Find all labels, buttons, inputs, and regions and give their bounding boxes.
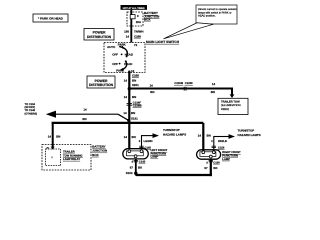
wire label 14 BN	[48, 134, 61, 138]
wire label 14 BN	[150, 83, 155, 93]
node label TO C194 (SPORT) TO C148 (OTHERS)	[25, 103, 38, 116]
svg-text:C156: C156	[218, 146, 225, 149]
svg-text:MAIN LIGHT SWITCH: MAIN LIGHT SWITCH	[146, 40, 180, 44]
svg-text:TOW RUNNING: TOW RUNNING	[63, 154, 83, 157]
wire: hot bar to fuse	[130, 10, 132, 15]
wire: drop to trailer tow relay	[51, 123, 55, 150]
svg-text:14: 14	[123, 111, 127, 115]
svg-text:13: 13	[131, 69, 135, 73]
svg-text:C156: C156	[213, 162, 220, 165]
bus wire 1: S201 to trailer tow illumination feed	[129, 88, 233, 90]
main light switch SW1 (dashed box)	[104, 42, 145, 73]
wire label 14 BN	[82, 108, 87, 121]
wire: switch output down to left lamp	[128, 71, 130, 150]
wire label 57 BK	[130, 166, 143, 170]
svg-text:BOX: BOX	[92, 153, 98, 157]
svg-text:BN: BN	[211, 90, 215, 94]
connector C145 pin 3	[139, 140, 153, 149]
in-line connector C134F / C134M	[127, 101, 143, 107]
battery junction box label	[144, 11, 159, 21]
wire label 195 TN/WH	[124, 30, 143, 34]
svg-text:BN: BN	[132, 135, 136, 139]
wire: right lamp to ground bus (corner)	[210, 159, 212, 176]
svg-text:HAZARD LAMPS: HAZARD LAMPS	[238, 133, 261, 137]
svg-text:OFF: OFF	[112, 53, 118, 57]
svg-text:S201: S201	[132, 83, 139, 87]
svg-text:DISTRIBUTION: DISTRIBUTION	[89, 83, 114, 87]
connector C268 pin 14	[126, 35, 142, 39]
svg-text:BN: BN	[132, 78, 136, 82]
battery junction box (top, dashed)	[127, 12, 143, 26]
switch wiper upper	[119, 46, 127, 58]
splice S191	[127, 117, 138, 122]
left front park/turn lamp	[123, 149, 149, 159]
wire: branch to C194/C148 arrow	[46, 111, 129, 121]
svg-text:HEAD position.: HEAD position.	[198, 15, 216, 18]
svg-text:TRAILER TOW: TRAILER TOW	[221, 101, 240, 104]
svg-text:14: 14	[126, 35, 130, 39]
wire label 14 BN	[123, 111, 135, 115]
svg-text:S191: S191	[131, 117, 138, 121]
wire: stub + arrow to turn/stop hazard lamps (right)	[213, 134, 235, 150]
svg-text:57: 57	[204, 166, 208, 170]
svg-text:C220M: C220M	[174, 82, 183, 85]
switch wiper lower	[119, 60, 127, 71]
splice S201	[128, 83, 140, 91]
svg-text:14: 14	[83, 108, 87, 112]
svg-text:(OTHERS): (OTHERS)	[25, 112, 38, 115]
node label TURN/STOP HAZARD LAMPS (right)	[238, 128, 261, 137]
ground bus wire	[136, 174, 212, 176]
svg-text:BN: BN	[82, 117, 86, 121]
power label HOT AT ALL TIMES	[121, 5, 148, 10]
svg-text:14: 14	[124, 95, 128, 99]
wire: stub + arrow to turn/stop hazard lamps (left)	[141, 133, 159, 149]
right front park/turn lamp	[197, 150, 221, 159]
in-line connector C220M C220F	[174, 82, 193, 90]
callout pointer wedge	[164, 23, 214, 39]
callout note box	[196, 5, 237, 24]
power distribution reference box 2	[87, 76, 115, 88]
wire: drop from bus 2 to right lamp	[202, 123, 204, 151]
node label TURN/STOP HAZARD LAMPS (left)	[163, 128, 186, 137]
svg-text:TURN/STOP: TURN/STOP	[238, 128, 255, 132]
svg-text:LAMP RELAY: LAMP RELAY	[63, 158, 80, 161]
svg-text:15A: 15A	[136, 20, 142, 24]
left front park/turn lamp label	[151, 149, 168, 159]
svg-text:(ILLUMINATION: (ILLUMINATION	[221, 104, 241, 107]
svg-text:S104: S104	[126, 171, 133, 175]
svg-text:* PARK OR HEAD: * PARK OR HEAD	[38, 16, 64, 20]
svg-text:TN/WH: TN/WH	[134, 30, 143, 34]
svg-text:BN: BN	[131, 111, 135, 115]
svg-text:LAMP: LAMP	[222, 158, 230, 161]
battery junction box (bottom, dashed)	[42, 145, 91, 171]
svg-text:C220F: C220F	[185, 82, 193, 85]
svg-text:14: 14	[198, 133, 202, 137]
svg-text:AUTO: AUTO	[107, 45, 116, 49]
wire label 14 BN (right lamp drop)	[198, 133, 211, 137]
right front park/turn lamp label	[222, 151, 241, 161]
bus wire 2: relay feed across to right lamp	[52, 122, 204, 124]
svg-text:C268: C268	[132, 73, 139, 77]
svg-text:14: 14	[124, 135, 128, 139]
svg-text:C268: C268	[134, 35, 141, 39]
battery junction box label (bottom)	[92, 145, 107, 157]
fuse 9 15A	[130, 14, 142, 24]
svg-text:72: 72	[134, 43, 138, 47]
svg-text:DISTRIBUTION: DISTRIBUTION	[87, 35, 112, 39]
svg-text:HEAD: HEAD	[124, 62, 132, 66]
svg-text:BOX: BOX	[144, 18, 151, 22]
svg-text:OFF: OFF	[112, 62, 118, 66]
svg-text:FEED): FEED)	[221, 108, 229, 111]
svg-text:LG/WH: LG/WH	[144, 140, 153, 143]
svg-text:14: 14	[212, 82, 216, 86]
wire: fuse to main light switch	[130, 19, 132, 43]
wire label 14 BN (left lamp drop)	[124, 135, 136, 139]
svg-text:WH/LB: WH/LB	[218, 140, 227, 143]
wire label 14 BN	[124, 78, 136, 82]
wire: drop to illumination feed box with arrow	[230, 89, 235, 99]
wire label 14 BN	[211, 82, 216, 94]
note box PARK OR HEAD	[33, 14, 68, 22]
svg-text:PARK: PARK	[118, 42, 127, 46]
connector C156 pin 4 (bottom)	[206, 160, 220, 164]
svg-text:TRAILER: TRAILER	[63, 151, 75, 154]
power distribution reference box 1	[84, 29, 114, 41]
svg-text:LAMP: LAMP	[151, 156, 159, 159]
svg-text:BN: BN	[56, 134, 60, 138]
trailer tow running lamp relay (inner dashed box)	[46, 147, 61, 166]
svg-text:14: 14	[48, 134, 52, 138]
svg-text:BN: BN	[150, 90, 154, 94]
wire: left lamp to ground splice	[135, 159, 137, 176]
connector C156 pin 3	[211, 140, 227, 149]
splice S104	[126, 171, 138, 175]
svg-text:TURN/STOP: TURN/STOP	[163, 128, 180, 132]
wire label 14 BN	[124, 95, 136, 99]
svg-text:C134M: C134M	[133, 104, 142, 107]
connector C145 pin 4 (bottom)	[132, 160, 146, 163]
svg-text:HOT AT ALL TIMES: HOT AT ALL TIMES	[123, 7, 145, 10]
wire label 57 BK	[204, 166, 218, 170]
svg-text:14: 14	[150, 83, 154, 87]
trailer tow running lamp relay label	[63, 151, 83, 161]
trailer tow illumination feed box	[218, 98, 248, 114]
svg-text:HAZARD LAMPS: HAZARD LAMPS	[163, 133, 186, 137]
svg-text:195: 195	[124, 30, 129, 34]
svg-text:BN: BN	[207, 133, 211, 137]
svg-text:14: 14	[124, 78, 128, 82]
svg-text:C145: C145	[139, 161, 146, 164]
svg-text:57: 57	[130, 166, 134, 170]
svg-text:BN: BN	[132, 95, 136, 99]
